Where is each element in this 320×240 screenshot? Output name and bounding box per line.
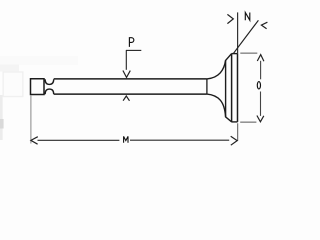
N dimension extension vertical	[237, 12, 239, 53]
P arrow down at stem top	[123, 71, 130, 78]
scan artifact left band	[0, 95, 3, 140]
stem top line	[54, 78, 207, 80]
M dimension line left segment	[38, 139, 120, 141]
label P	[129, 38, 133, 47]
head margin left line	[231, 54, 233, 122]
O top extension line	[240, 52, 257, 54]
label O	[257, 82, 260, 89]
M right extension line	[237, 123, 239, 140]
label M	[124, 136, 128, 142]
stem bottom line	[54, 93, 207, 95]
head bottom edge	[232, 121, 238, 123]
M dimension line right segment	[130, 139, 229, 141]
keeper groove bottom arc	[45, 89, 54, 94]
N dimension face-angle diagonal	[234, 20, 259, 53]
O arrow down	[257, 116, 264, 122]
P leader vertical	[125, 50, 127, 69]
O arrow up	[257, 55, 264, 62]
O dimension line upper	[260, 61, 262, 80]
N arrow right-pointing	[227, 14, 233, 23]
valve tip square	[31, 79, 45, 95]
bottom fillet	[207, 94, 232, 122]
keeper groove top arc	[45, 79, 54, 84]
M arrow left-pointing	[31, 137, 38, 145]
P leader horizontal	[126, 49, 141, 51]
stem end tick	[206, 79, 208, 94]
label N	[245, 13, 250, 21]
M arrow right-pointing	[231, 136, 238, 145]
M left extension line	[30, 96, 32, 144]
P arrow up at stem bottom	[123, 96, 129, 101]
O dimension line lower	[260, 92, 262, 116]
top fillet	[207, 54, 232, 79]
scan artifact ghost square	[3, 72, 23, 97]
head top edge	[232, 53, 238, 55]
N arrow left-pointing	[261, 22, 267, 29]
head margin right line	[237, 54, 239, 122]
O bottom extension line	[240, 121, 256, 123]
head back cone line	[225, 61, 227, 117]
